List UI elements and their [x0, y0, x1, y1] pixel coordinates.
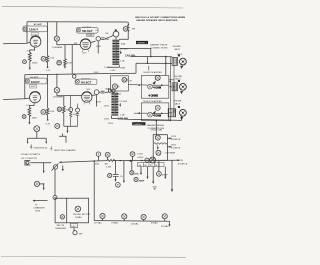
output transformer T2: [113, 93, 117, 116]
label: CHANNEL 1 box: [136, 41, 148, 44]
matching network box: [111, 76, 129, 91]
svg-text:1500MMF: 1500MMF: [52, 47, 63, 49]
resistor circle 150ohm: [130, 152, 135, 157]
svg-text:180Ω: 180Ω: [32, 116, 38, 119]
svg-text:VO 600: VO 600: [119, 101, 127, 103]
svg-text:115VAC: 115VAC: [131, 222, 140, 225]
svg-text:50L6GT: 50L6GT: [81, 80, 92, 84]
wire: left border ch2: [24, 75, 26, 99]
label: boxed 175MF: [87, 34, 94, 36]
svg-text:470K: 470K: [66, 110, 72, 112]
svg-text:NON-POLARIZED: NON-POLARIZED: [143, 71, 162, 74]
heater branch: vertical with resistor R6: [127, 22, 129, 26]
svg-text:150Ω: 150Ω: [137, 152, 143, 155]
primary circles T2: [108, 89, 111, 92]
svg-text:180Ω: 180Ω: [32, 62, 38, 65]
jack J3: [168, 106, 186, 117]
svg-text:SW ON: SW ON: [57, 225, 65, 227]
svg-text:JACK: JACK: [174, 48, 180, 51]
svg-text:PHONE: PHONE: [174, 76, 183, 78]
svg-text:CONNECTIONS: CONNECTIONS: [151, 48, 168, 50]
wire: pot branch ch2: [47, 74, 49, 108]
sub circuit: 40MF circle: [134, 177, 138, 181]
B- arrow below R7: [28, 119, 30, 122]
chassis ground: [153, 187, 157, 190]
pilot circle: [123, 27, 128, 32]
output transformer T1: [114, 40, 118, 66]
resistor R14 10K: [46, 108, 49, 119]
wire: switch down to changer: [54, 169, 56, 195]
wire: V3 cathode: [29, 103, 34, 108]
svg-text:PHONO MOTOR: PHONO MOTOR: [73, 214, 91, 216]
wire: input line ch2: [3, 98, 30, 100]
wire: down to bottom row: [93, 161, 95, 221]
svg-text:CIRCUIT CAB: CIRCUIT CAB: [150, 129, 162, 132]
volume pot R2: [41, 56, 46, 61]
svg-text:470K: 470K: [67, 63, 73, 65]
cartridge splitter: [28, 132, 47, 142]
right bus down: [171, 160, 173, 189]
plug P2: [155, 105, 160, 110]
svg-text:CHANNEL 1: CHANNEL 1: [137, 42, 148, 45]
speaker SP1: [148, 84, 153, 89]
branch x77.5 with circle: [76, 108, 80, 112]
svg-text:47Ω: 47Ω: [134, 173, 139, 176]
wire to switch: [30, 162, 51, 164]
svg-text:123V: 123V: [178, 160, 184, 162]
switch S1: [53, 165, 57, 169]
resistor divider in box: [154, 143, 167, 145]
svg-text:SOURCE: SOURCE: [171, 147, 181, 149]
wire: rail riser to jack line: [135, 63, 137, 73]
phono motor circle: [75, 206, 81, 212]
svg-text:5.2V: 5.2V: [46, 70, 51, 72]
svg-text:12AU7: 12AU7: [31, 80, 40, 84]
svg-text:HINGED SPEAKER UNITS REMOVED.: HINGED SPEAKER UNITS REMOVED.: [136, 19, 178, 22]
svg-text:12AU7: 12AU7: [29, 28, 38, 32]
speaker SP2: [148, 112, 153, 117]
coupling capacitor C1: [56, 22, 58, 36]
svg-text:7V: 7V: [27, 50, 30, 52]
changer bus arrow: [35, 200, 48, 202]
svg-text:5.4V: 5.4V: [45, 124, 50, 126]
circle C8 on rail: [105, 152, 110, 157]
svg-text:115VAC: 115VAC: [161, 225, 170, 228]
svg-text:4 OHM: 4 OHM: [153, 115, 161, 118]
ballast lamp circle: [155, 135, 160, 140]
svg-text:CHANNEL 2: CHANNEL 2: [133, 123, 144, 126]
cartridge terminal circle: [34, 126, 40, 132]
aux vertical: [123, 161, 125, 181]
wire: jack feed lines: [131, 56, 173, 75]
AC plug connector: [25, 160, 30, 165]
branch x70.7 with circle: [69, 108, 73, 112]
svg-text:10K: 10K: [50, 111, 55, 113]
svg-text:115VAC: 115VAC: [75, 216, 82, 219]
cap circle in box: [112, 84, 117, 89]
svg-text:50V: 50V: [82, 52, 87, 54]
svg-text:123V: 123V: [171, 136, 177, 138]
shield bracket: [59, 134, 66, 143]
capacitor circle C11: [57, 60, 62, 65]
speaker box 1: [141, 76, 169, 99]
wire: left border ch1: [26, 22, 28, 44]
tube V4 50L6GT: [82, 92, 92, 102]
svg-text:15Ω: 15Ω: [117, 93, 122, 96]
svg-text:175MF: 175MF: [87, 35, 92, 37]
svg-text:150V: 150V: [105, 89, 111, 91]
svg-text:BUS: BUS: [36, 210, 41, 212]
svg-text:150V: 150V: [104, 118, 110, 120]
plate cap circle on T1: [113, 31, 119, 37]
bottom page rule: [1, 256, 186, 259]
capacitor C3: [100, 35, 113, 39]
sub circuit: 47ohm circle: [131, 161, 133, 171]
svg-text:40Ω: 40Ω: [95, 162, 100, 165]
feed from long line: [155, 121, 157, 135]
svg-text:SOURCE: SOURCE: [171, 139, 181, 141]
wire: top rail ch1: [27, 21, 128, 23]
plug circle in box: [122, 78, 127, 83]
ballast box: [153, 135, 167, 161]
svg-text:4 OHMS: 4 OHMS: [149, 94, 159, 97]
arrow: T2 tap: [119, 103, 121, 105]
svg-text:JACK: JACK: [175, 102, 181, 105]
svg-text:1.6W: 1.6W: [106, 166, 112, 168]
wire: V4 plate: [92, 94, 95, 96]
wire: V1 cathode: [30, 47, 35, 52]
wire: branch x72 down to ch2 rail: [71, 45, 73, 74]
svg-text:PHONE: PHONE: [174, 101, 183, 103]
pilot lamp: [34, 181, 39, 186]
svg-text:47VAC: 47VAC: [111, 221, 118, 224]
shield terminal circle: [55, 124, 60, 129]
sub circuit: 60MF circle: [158, 161, 160, 171]
tap with arrow: [43, 163, 45, 171]
svg-text:CABINET HINGE: CABINET HINGE: [150, 44, 168, 47]
value cells row: [138, 163, 165, 167]
wire: branch x65: [64, 45, 66, 59]
svg-text:50V: 50V: [86, 89, 91, 91]
wire: grid line to V4: [57, 95, 82, 97]
svg-text:CHANGER: CHANGER: [34, 207, 46, 210]
wire: pot branch: [47, 22, 49, 56]
svg-text:AF AMP: AF AMP: [30, 76, 39, 79]
resistor R13 10K: [46, 56, 49, 67]
end arrow down: [169, 221, 171, 224]
wire: top rail ch2: [25, 73, 136, 75]
junction dot on main line: [141, 160, 143, 162]
svg-text:50L6GT: 50L6GT: [82, 29, 93, 33]
rectifier circle: [150, 157, 156, 163]
wires: hinge vertical buses: [128, 57, 174, 121]
wire: input line ch1: [3, 42, 30, 44]
svg-text:117VAC 40 WATTS: 117VAC 40 WATTS: [21, 153, 41, 156]
jack J2: [172, 80, 186, 91]
svg-text:145V: 145V: [171, 144, 177, 146]
wire: B- bus ch2: [64, 126, 78, 130]
wire: grid line to V2: [57, 44, 81, 46]
resistor R3 470K: [64, 59, 67, 67]
wire: long line ch2 bottom: [112, 116, 182, 121]
svg-text:AF AMP: AF AMP: [34, 23, 43, 26]
svg-text:7V: 7V: [26, 105, 29, 107]
arrow right of switch: [62, 166, 64, 170]
svg-text:150V: 150V: [104, 67, 110, 69]
svg-text:CIR HEAT: CIR HEAT: [165, 151, 176, 154]
tube V1 12AU7: [30, 36, 41, 47]
terminal circle on rail: [96, 152, 100, 156]
svg-text:12K: 12K: [73, 114, 78, 116]
capacitor box 1000: [71, 223, 78, 227]
arrow: T1 tap: [120, 50, 122, 52]
B- arrows under cells: [140, 167, 142, 173]
lower circle in box: [156, 150, 161, 155]
svg-text:10K: 10K: [50, 57, 55, 59]
svg-text:DENOTES CHASSIS: DENOTES CHASSIS: [54, 149, 76, 152]
label: CHANNEL 2 box: [132, 122, 145, 125]
svg-text:117VAC: 117VAC: [94, 221, 103, 224]
svg-text:40MF: 40MF: [139, 179, 145, 182]
jack J1: [172, 54, 186, 65]
svg-text:PHONE: PHONE: [173, 46, 182, 48]
svg-text:CAB WH: CAB WH: [125, 54, 135, 57]
on-off switch in changer: [60, 215, 64, 219]
top page rule: [2, 6, 183, 8]
arrow in box: [157, 145, 159, 148]
junction dots: [93, 160, 95, 162]
svg-text:150V: 150V: [104, 105, 110, 107]
plug P1: [155, 75, 160, 80]
svg-text:60 CY MOTOR: 60 CY MOTOR: [22, 158, 38, 160]
legend: denotes B- / chassis: [30, 144, 32, 148]
svg-text:USE PLUG & SOCKET CONNECTIONS: USE PLUG & SOCKET CONNECTIONS WHEN: [135, 17, 186, 19]
resistor R1 cathode 180ohm: [28, 53, 31, 65]
svg-text:TO: TO: [35, 205, 38, 207]
svg-text:1500MMF: 1500MMF: [53, 97, 64, 99]
svg-text:1000: 1000: [71, 226, 75, 228]
circle on main line: [145, 158, 149, 162]
resistor R9: [63, 106, 66, 126]
svg-text:+450V: +450V: [137, 157, 144, 159]
svg-text:2K: 2K: [129, 80, 132, 82]
terminal circle above changer box: [53, 195, 57, 199]
svg-text:120V: 120V: [110, 70, 116, 72]
svg-text:CHANGER: CHANGER: [55, 227, 67, 230]
svg-text:GRN: GRN: [120, 67, 125, 69]
svg-text:120V: 120V: [108, 123, 114, 125]
screen circle C2: [96, 37, 100, 41]
diode arrow at left of main line: [128, 160, 131, 162]
svg-text:M: M: [155, 165, 157, 167]
volume pot R8: [41, 110, 46, 115]
terminal circles: [100, 213, 105, 218]
svg-text:SOURCE: SOURCE: [178, 164, 188, 166]
filter cap C9: [115, 161, 117, 175]
svg-text:60MF: 60MF: [162, 175, 168, 177]
bypass circle C10: [23, 60, 27, 64]
svg-text:VO 600: VO 600: [120, 48, 128, 50]
wire: branch x63.8: [63, 96, 65, 106]
svg-text:1.1A: 1.1A: [120, 60, 125, 63]
bypass circle C12: [22, 115, 26, 119]
coupling capacitor C4: [56, 74, 58, 88]
resistor R12 inline: [107, 160, 115, 162]
wire: V2 plate: [91, 41, 96, 43]
svg-text:NON-POLARIZED: NON-POLARIZED: [143, 100, 162, 103]
wire: T1 secondary A: [120, 49, 151, 57]
svg-text:CAB WH: CAB WH: [118, 118, 128, 121]
speaker box 2: [141, 103, 169, 121]
small cap circle: [108, 173, 112, 177]
svg-text:84A: 84A: [121, 42, 126, 45]
svg-text:60VAC: 60VAC: [151, 222, 158, 225]
capacitor C7: [99, 91, 108, 93]
wire: T1 bottom return: [108, 65, 120, 67]
tube V3 12AU7: [30, 92, 41, 103]
svg-text:CABINET HINGE: CABINET HINGE: [146, 124, 164, 127]
tube V2 50L6GT: [80, 39, 91, 50]
svg-text:120V: 120V: [96, 102, 102, 104]
svg-text:2M: 2M: [74, 43, 77, 45]
capacitor circle C13: [57, 107, 61, 111]
svg-text:1.1A: 1.1A: [120, 113, 125, 116]
svg-text:120V: 120V: [96, 46, 102, 48]
source arrows: [167, 137, 169, 139]
resistor R7 cathode: [28, 108, 31, 120]
screen circle C6: [94, 90, 99, 95]
B- arrow below R1: [29, 65, 31, 68]
svg-text:4 OHM: 4 OHM: [153, 87, 161, 90]
svg-text:DENOTES B–: DENOTES B–: [34, 148, 49, 150]
